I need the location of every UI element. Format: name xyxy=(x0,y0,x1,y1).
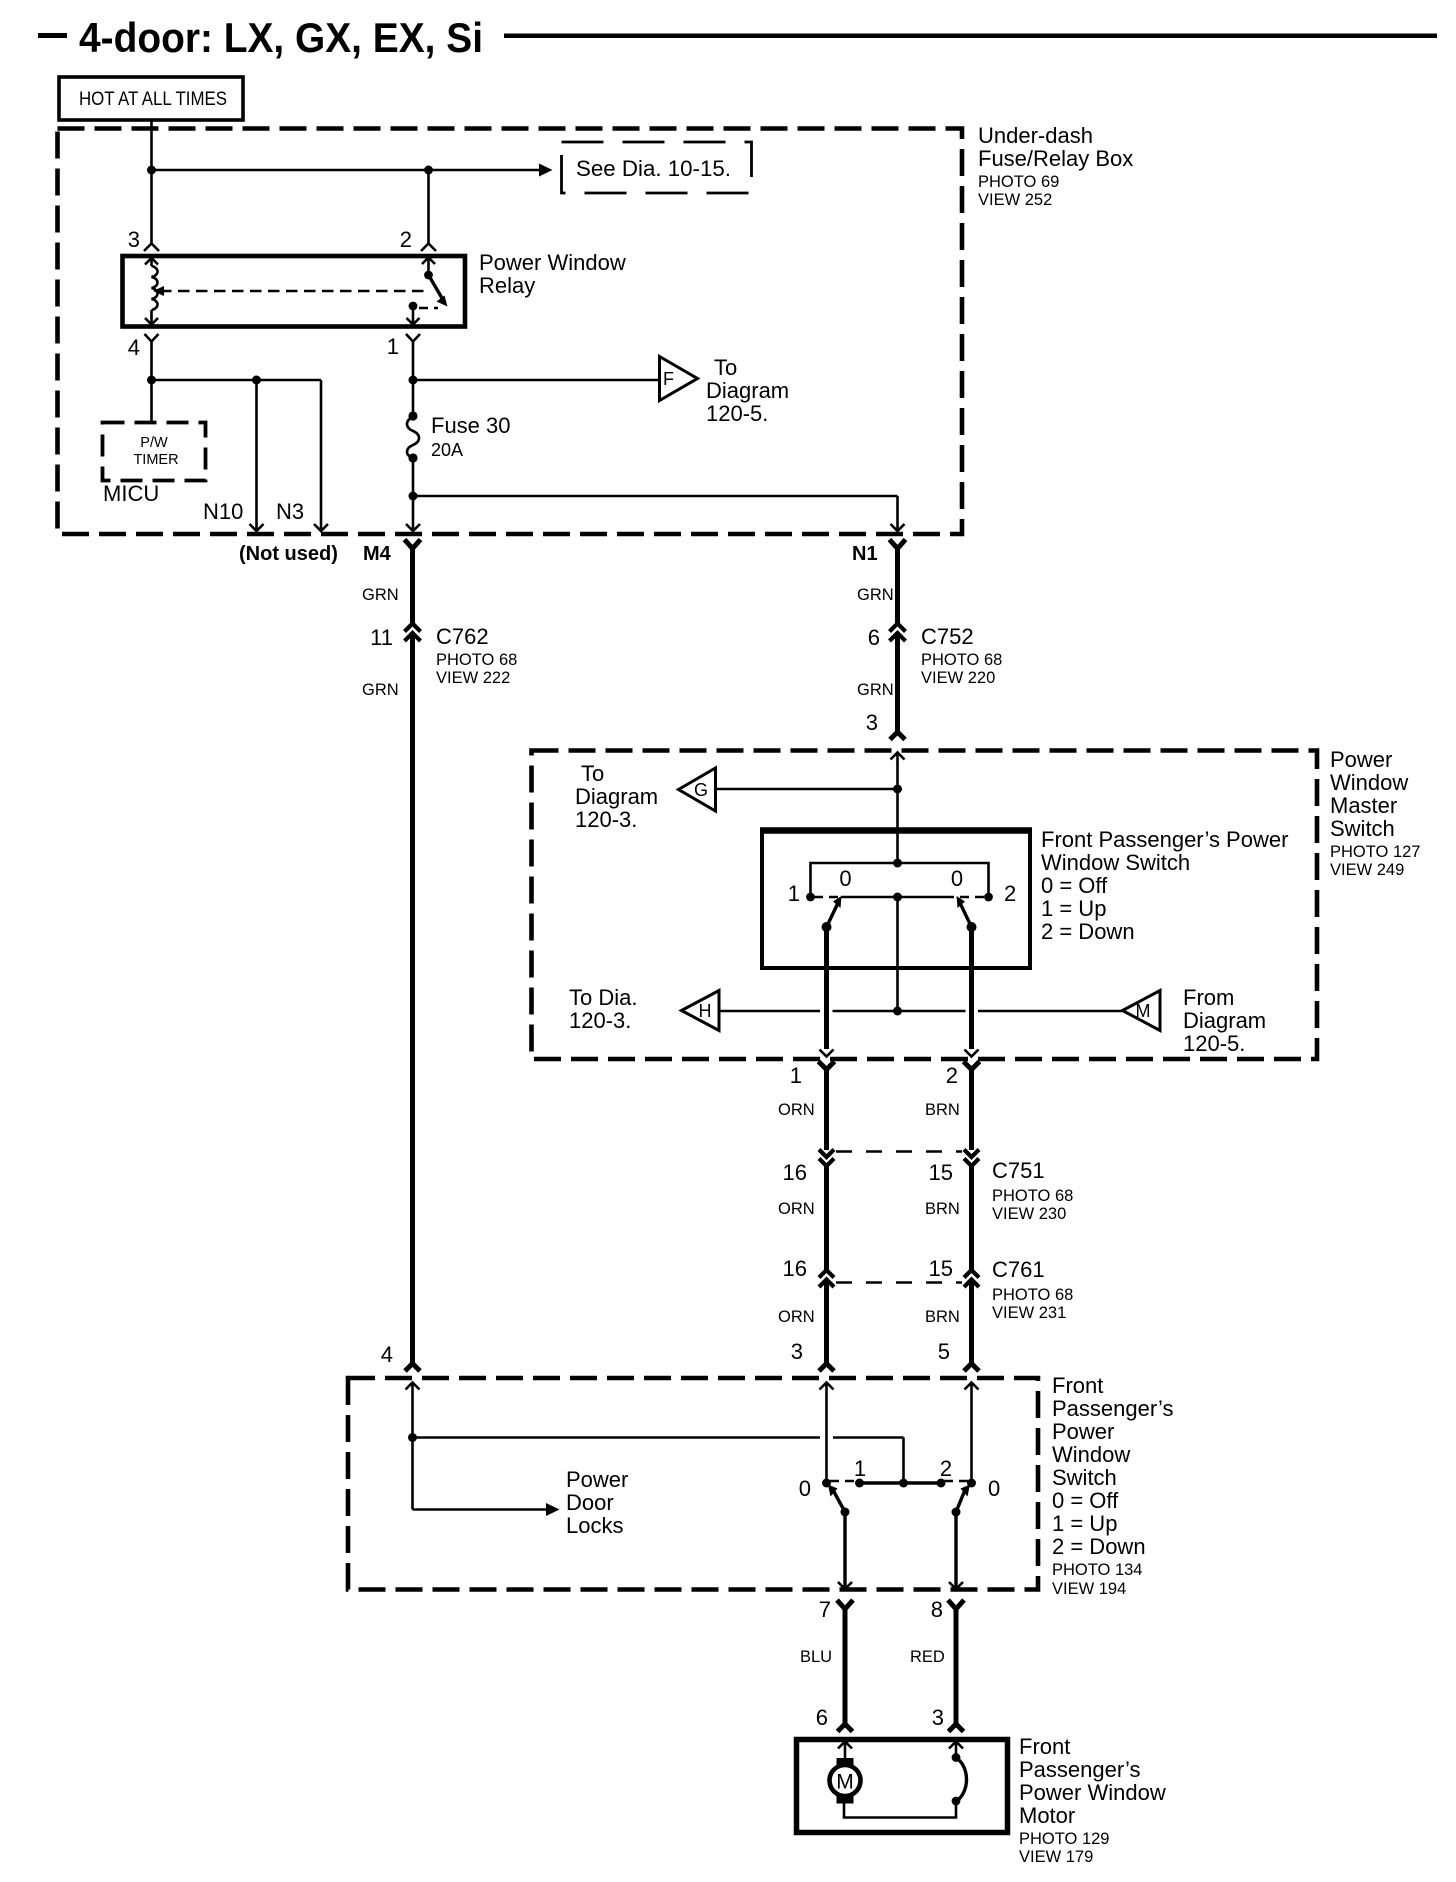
wire: branch across to N3 xyxy=(152,379,322,382)
svg-text:1 = Up: 1 = Up xyxy=(1041,896,1106,921)
connector C762 chevrons xyxy=(405,624,421,632)
svg-text:See Dia. 10-15.: See Dia. 10-15. xyxy=(576,156,731,181)
fuse 30 bottom node xyxy=(408,453,417,462)
svg-text:VIEW 194: VIEW 194 xyxy=(1052,1580,1126,1598)
svg-text:C762: C762 xyxy=(436,624,489,649)
pin 4 entry arrow xyxy=(406,1383,420,1390)
svg-text:2 = Down: 2 = Down xyxy=(1041,919,1135,944)
svg-text:Switch: Switch xyxy=(1052,1465,1117,1490)
left blade pivot node xyxy=(841,1508,850,1517)
wire ORN C761 to lower switch pin 3 xyxy=(824,1282,829,1364)
svg-text:3: 3 xyxy=(791,1339,803,1364)
svg-text:BRN: BRN xyxy=(925,1308,960,1326)
svg-text:GRN: GRN xyxy=(857,586,894,604)
svg-text:120-3.: 120-3. xyxy=(575,807,637,832)
svg-text:0 = Off: 0 = Off xyxy=(1041,873,1108,898)
pin 3 entry chevron xyxy=(144,244,159,252)
svg-text:VIEW 179: VIEW 179 xyxy=(1019,1848,1093,1866)
connector C751 chevrons left xyxy=(819,1150,834,1158)
svg-text:N10: N10 xyxy=(203,499,243,524)
svg-text:4: 4 xyxy=(128,335,140,360)
wire: hot feed from HOT box to relay pin 3 xyxy=(150,120,153,244)
relay switch pivot node xyxy=(424,271,433,280)
svg-text:5: 5 xyxy=(938,1339,950,1364)
wire: pin 6 to motor xyxy=(844,1742,847,1760)
wire GRN M4 to C762 xyxy=(410,546,415,624)
svg-text:C761: C761 xyxy=(992,1257,1045,1282)
pin 6 wire end flare xyxy=(838,1724,853,1732)
svg-text:M4: M4 xyxy=(363,543,392,565)
front passenger's power window motor box xyxy=(797,1740,1008,1833)
triangle M (from diagram 120-5) xyxy=(1123,991,1161,1031)
switch common bar xyxy=(841,896,954,899)
svg-text:GRN: GRN xyxy=(362,681,399,699)
wire: branch to See Dia. 10-15 xyxy=(152,169,540,172)
pin 4 wire end flare xyxy=(405,1364,420,1372)
junction node feed branch xyxy=(408,1433,417,1442)
wire: feed drop to common bar xyxy=(902,1438,905,1484)
svg-text:VIEW 249: VIEW 249 xyxy=(1330,861,1404,879)
svg-text:Locks: Locks xyxy=(566,1513,623,1538)
svg-text:C751: C751 xyxy=(992,1158,1045,1183)
svg-text:TIMER: TIMER xyxy=(133,452,178,468)
wire: down to P/W timer xyxy=(150,380,153,422)
wire: to F triangle xyxy=(413,379,660,382)
dashed link contact 2 xyxy=(960,896,984,899)
svg-text:BRN: BRN xyxy=(925,1101,960,1119)
svg-text:3: 3 xyxy=(128,227,140,252)
pin 3 entry arrow inside master switch xyxy=(891,753,905,760)
wire BRN pin2 to C751 xyxy=(969,1067,974,1150)
svg-text:PHOTO 129: PHOTO 129 xyxy=(1019,1830,1109,1848)
svg-text:6: 6 xyxy=(816,1705,828,1730)
dashed link right xyxy=(944,1480,968,1483)
connector C751 dashed mate line xyxy=(836,1150,962,1153)
relay switch arrow from pin 2 xyxy=(422,258,435,265)
svg-text:Switch: Switch xyxy=(1330,816,1395,841)
svg-text:To Dia.: To Dia. xyxy=(569,985,637,1010)
arrowhead to power door locks xyxy=(546,1503,560,1516)
wire: pin 3 to contact 0 xyxy=(825,1383,828,1484)
svg-text:3: 3 xyxy=(866,710,878,735)
wire: to power door locks xyxy=(413,1508,547,1511)
svg-text:1: 1 xyxy=(790,1063,802,1088)
svg-text:ORN: ORN xyxy=(778,1101,815,1119)
svg-text:1: 1 xyxy=(854,1456,866,1481)
svg-text:3: 3 xyxy=(932,1705,944,1730)
svg-text:120-5.: 120-5. xyxy=(706,401,768,426)
svg-text:2: 2 xyxy=(400,227,412,252)
svg-text:Relay: Relay xyxy=(479,273,535,298)
svg-text:2: 2 xyxy=(1004,881,1016,906)
wire: relay pin 1 to fuse xyxy=(412,342,415,417)
title dash left xyxy=(38,33,67,38)
motor M1 body xyxy=(830,1765,861,1796)
svg-text:Under-dash: Under-dash xyxy=(978,123,1093,148)
svg-text:MICU: MICU xyxy=(103,481,159,506)
common bar 1-2 xyxy=(860,1481,942,1484)
wire: pin 3 to brush contact xyxy=(955,1742,958,1758)
connector C751 chevrons right xyxy=(964,1150,979,1158)
connector M4 fork xyxy=(405,540,421,549)
svg-text:PHOTO 68: PHOTO 68 xyxy=(436,651,517,669)
svg-text:4: 4 xyxy=(381,1342,393,1367)
triangle F (to diagram 120-5) xyxy=(660,357,698,401)
svg-text:16: 16 xyxy=(783,1256,807,1281)
svg-text:BLU: BLU xyxy=(800,1648,832,1666)
svg-text:M: M xyxy=(1136,1001,1151,1021)
svg-text:15: 15 xyxy=(929,1160,953,1185)
relay switch throw node xyxy=(409,302,418,311)
wire BLU pin7 to motor pin 6 xyxy=(843,1607,848,1725)
switch feed bracket xyxy=(811,863,989,895)
svg-text:0: 0 xyxy=(839,866,851,891)
svg-text:2: 2 xyxy=(940,1456,952,1481)
svg-text:BRN: BRN xyxy=(925,1200,960,1218)
junction node N10 branch xyxy=(252,376,261,385)
svg-text:11: 11 xyxy=(370,625,393,650)
motor pin 6 entry arrow xyxy=(838,1742,852,1749)
pin 5 entry arrow xyxy=(965,1383,979,1390)
front passenger's power window switch box (in master switch) xyxy=(762,831,1030,969)
connector N1 fork xyxy=(890,540,906,549)
wire: drop to N1 xyxy=(896,496,899,531)
svg-text:Power: Power xyxy=(1330,747,1392,772)
pin 3 entry arrow xyxy=(820,1383,834,1390)
svg-text:C752: C752 xyxy=(921,624,974,649)
right blade pivot node xyxy=(952,1508,961,1517)
pin 3 wire end flare xyxy=(819,1364,834,1372)
svg-text:Passenger’s: Passenger’s xyxy=(1052,1396,1173,1421)
svg-text:M: M xyxy=(836,1771,854,1794)
wire: to G triangle xyxy=(716,788,898,791)
bracket center node xyxy=(893,859,902,868)
svg-text:1: 1 xyxy=(387,334,399,359)
svg-text:Front: Front xyxy=(1019,1734,1070,1759)
svg-text:6: 6 xyxy=(868,625,880,650)
junction node on hot feed xyxy=(147,166,156,175)
svg-text:0: 0 xyxy=(799,1476,811,1501)
brush contact bottom node xyxy=(952,1797,961,1806)
svg-text:HOT AT ALL TIMES: HOT AT ALL TIMES xyxy=(79,89,227,110)
svg-text:RED: RED xyxy=(910,1648,945,1666)
svg-text:Fuse/Relay Box: Fuse/Relay Box xyxy=(978,146,1133,171)
pin 2 entry chevron xyxy=(421,244,436,252)
svg-text:Fuse 30: Fuse 30 xyxy=(431,413,511,438)
relay coil bottom arrow xyxy=(150,310,153,325)
connector 8 fork xyxy=(948,1600,964,1609)
wire BRN C761 to lower switch pin 5 xyxy=(969,1282,974,1364)
svg-text:Front Passenger’s Power: Front Passenger’s Power xyxy=(1041,827,1288,852)
svg-text:20A: 20A xyxy=(431,440,463,460)
brush contact top node xyxy=(952,1753,961,1762)
pin 1 connector fork xyxy=(406,334,420,342)
wire: left blade to pin 7 xyxy=(843,1512,846,1589)
junction node pin4/timer xyxy=(147,376,156,385)
svg-text:G: G xyxy=(694,780,708,800)
svg-text:N3: N3 xyxy=(276,499,304,524)
svg-text:PHOTO 127: PHOTO 127 xyxy=(1330,843,1420,861)
power window relay box xyxy=(123,256,466,327)
pin 1 exit arrow at master bottom edge xyxy=(820,1050,834,1057)
contact 1 node xyxy=(855,1479,864,1488)
wire RED pin8 to motor pin 3 xyxy=(954,1607,959,1725)
title rule right xyxy=(504,34,1437,39)
svg-text:1: 1 xyxy=(788,881,800,906)
svg-text:PHOTO 68: PHOTO 68 xyxy=(992,1187,1073,1205)
svg-text:Power Window: Power Window xyxy=(479,250,626,275)
svg-text:Diagram: Diagram xyxy=(1183,1008,1266,1033)
svg-text:Master: Master xyxy=(1330,793,1397,818)
connector C761 chevrons left xyxy=(819,1270,834,1278)
svg-text:120-3.: 120-3. xyxy=(569,1008,631,1033)
svg-text:Window Switch: Window Switch xyxy=(1041,850,1190,875)
power window master switch dashed enclosure xyxy=(532,751,1318,1060)
wire: across to N1 xyxy=(413,495,898,498)
front passenger's power window switch dashed enclosure xyxy=(348,1378,1038,1590)
pin 5 wire end flare xyxy=(964,1364,979,1372)
triangle G (to diagram 120-3) xyxy=(679,768,716,811)
wire: right blade to pin 8 xyxy=(954,1512,957,1589)
junction node on H-M link xyxy=(893,1007,902,1016)
svg-text:N1: N1 xyxy=(852,543,878,565)
relay dashed link arrowhead xyxy=(153,286,164,296)
svg-text:4-door: LX, GX, EX, Si: 4-door: LX, GX, EX, Si xyxy=(79,14,483,61)
svg-text:F: F xyxy=(663,369,674,389)
under-dash fuse/relay box (dashed enclosure) xyxy=(58,129,963,535)
connector C761 chevrons right xyxy=(964,1270,979,1278)
svg-text:VIEW 220: VIEW 220 xyxy=(921,669,995,687)
pin 2 exit arrow at master bottom edge xyxy=(965,1050,979,1057)
pin 2 connector fork below master xyxy=(964,1062,980,1070)
svg-text:16: 16 xyxy=(783,1160,807,1185)
svg-text:0: 0 xyxy=(988,1476,1000,1501)
relay switch dashed throw link xyxy=(419,307,438,310)
svg-text:Power: Power xyxy=(1052,1419,1114,1444)
svg-text:0: 0 xyxy=(951,866,963,891)
svg-text:Door: Door xyxy=(566,1490,614,1515)
svg-text:2 = Down: 2 = Down xyxy=(1052,1534,1146,1559)
wire: pin 5 to contact 0 xyxy=(970,1383,973,1484)
wire: branch down to relay pin 2 xyxy=(427,170,430,244)
svg-text:PHOTO 134: PHOTO 134 xyxy=(1052,1561,1142,1579)
wire: feed across to switch center (hops GRN/ORN wire) xyxy=(413,1436,821,1439)
svg-text:PHOTO 68: PHOTO 68 xyxy=(992,1286,1073,1304)
pin 3 wire end flare xyxy=(949,1724,964,1732)
pin 4 connector fork xyxy=(145,334,159,342)
wire: pin 3 down to switch bracket xyxy=(896,753,899,864)
master switch pin 3 wire end flare xyxy=(890,732,905,740)
down-blade pivot node xyxy=(967,922,977,932)
wire: throw node to relay pin 1 xyxy=(412,306,415,325)
svg-text:H: H xyxy=(699,1001,712,1021)
svg-text:GRN: GRN xyxy=(857,681,894,699)
svg-text:Passenger’s: Passenger’s xyxy=(1019,1757,1140,1782)
dashed link contact 1 xyxy=(814,896,838,899)
svg-text:GRN: GRN xyxy=(362,586,399,604)
svg-text:To: To xyxy=(581,761,604,786)
common bar center node xyxy=(893,893,902,902)
relay internal dashed link xyxy=(160,290,427,293)
dashed link left xyxy=(830,1480,854,1483)
contact 0 right node xyxy=(967,1479,976,1488)
common bar center node xyxy=(899,1479,908,1488)
pin 1 connector fork below master xyxy=(819,1062,835,1070)
svg-text:0 = Off: 0 = Off xyxy=(1052,1488,1119,1513)
fuse 30 top node xyxy=(408,411,417,420)
wire: contact to motor return xyxy=(844,1801,956,1818)
svg-text:7: 7 xyxy=(819,1597,831,1622)
P/W timer dashed box xyxy=(103,423,206,481)
relay switch blade xyxy=(429,275,443,299)
contact 2 node xyxy=(937,1479,946,1488)
svg-text:VIEW 230: VIEW 230 xyxy=(992,1205,1066,1223)
junction node to N1 xyxy=(409,492,418,501)
svg-text:To: To xyxy=(714,355,737,380)
connector C761 dashed mate line xyxy=(836,1281,962,1284)
svg-text:PHOTO 68: PHOTO 68 xyxy=(921,651,1002,669)
arrowhead to See Dia box xyxy=(539,164,553,177)
triangle H (to dia 120-3) xyxy=(682,991,720,1031)
motor pin 3 entry arrow xyxy=(949,1742,963,1749)
contact 0 left node xyxy=(822,1479,831,1488)
svg-text:Power Window: Power Window xyxy=(1019,1780,1166,1805)
See Dia. 10-15. dashed box xyxy=(562,142,752,193)
right blade (down) xyxy=(956,1490,965,1512)
svg-text:(Not used): (Not used) xyxy=(239,543,338,565)
svg-text:2: 2 xyxy=(946,1063,958,1088)
wire: down-blade to pin 2 xyxy=(969,927,974,1049)
connector C752 chevrons xyxy=(890,624,906,632)
wire: N3 drop xyxy=(320,380,323,531)
junction node at relay pin 2 branch xyxy=(424,166,433,175)
left blade (up) xyxy=(833,1490,845,1512)
motor M1 commutator blocks xyxy=(837,1758,854,1766)
svg-text:1 = Up: 1 = Up xyxy=(1052,1511,1117,1536)
wire: N10 drop xyxy=(255,380,258,531)
svg-text:Diagram: Diagram xyxy=(575,784,658,809)
contact 2 node xyxy=(984,893,993,902)
relay coil xyxy=(152,266,158,310)
svg-text:ORN: ORN xyxy=(778,1200,815,1218)
svg-text:Diagram: Diagram xyxy=(706,378,789,403)
svg-text:120-5.: 120-5. xyxy=(1183,1031,1245,1056)
wire: fuse to M4 xyxy=(412,458,415,531)
svg-text:P/W: P/W xyxy=(140,435,168,451)
contact 1 node xyxy=(806,893,815,902)
wire: center down through box xyxy=(896,897,899,1011)
svg-text:VIEW 252: VIEW 252 xyxy=(978,191,1052,209)
wire: pin 4 down to branch xyxy=(411,1383,414,1510)
svg-text:VIEW 231: VIEW 231 xyxy=(992,1304,1066,1322)
svg-text:VIEW 222: VIEW 222 xyxy=(436,669,510,687)
wire ORN pin1 to C751 xyxy=(824,1067,829,1150)
svg-text:Front: Front xyxy=(1052,1373,1103,1398)
svg-text:Motor: Motor xyxy=(1019,1803,1075,1828)
connector 7 fork xyxy=(837,1600,853,1609)
HOT AT ALL TIMES box xyxy=(59,77,243,120)
wire BRN C751 to C761 xyxy=(969,1163,974,1270)
svg-text:Window: Window xyxy=(1052,1442,1130,1467)
up-blade (window up) xyxy=(827,903,839,927)
wire GRN C762 down to lower switch xyxy=(410,636,415,1364)
svg-text:8: 8 xyxy=(931,1597,943,1622)
svg-text:From: From xyxy=(1183,985,1234,1010)
down-blade (window down) xyxy=(960,903,972,927)
fuse 30 element xyxy=(407,417,419,458)
brush contact arc xyxy=(956,1758,967,1802)
svg-text:Window: Window xyxy=(1330,770,1408,795)
up-blade pivot node xyxy=(822,922,832,932)
svg-text:ORN: ORN xyxy=(778,1308,815,1326)
wire: to H triangle xyxy=(719,1010,820,1013)
wire ORN C751 to C761 xyxy=(824,1163,829,1270)
svg-text:PHOTO 69: PHOTO 69 xyxy=(978,173,1059,191)
svg-text:15: 15 xyxy=(929,1256,953,1281)
junction node to G xyxy=(893,785,902,794)
svg-text:Power: Power xyxy=(566,1467,628,1492)
wire: relay pin 4 down to MICU branch xyxy=(150,342,153,381)
wire: up-blade to pin 1 xyxy=(824,927,829,1049)
relay coil top arrow xyxy=(145,258,158,265)
junction node to diagram 120-5 xyxy=(409,376,418,385)
wire GRN N1 to C752 xyxy=(895,546,900,624)
wire GRN C752 down to master switch pin 3 xyxy=(895,636,900,733)
